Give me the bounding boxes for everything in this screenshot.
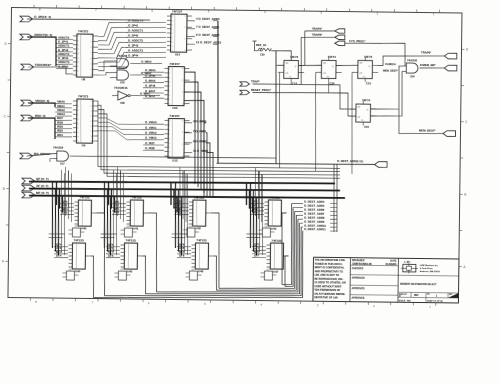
svg-text:U9: U9 xyxy=(82,143,86,147)
svg-text:O_VMA1: O_VMA1 xyxy=(145,125,157,129)
svg-text:74AS08: 74AS08 xyxy=(117,65,128,69)
svg-text:2: 2 xyxy=(169,77,170,79)
svg-text:O_VMA3: O_VMA3 xyxy=(145,136,157,140)
net labels O_ADDCT0-7 into U14 xyxy=(126,19,167,58)
svg-text:O_3P44: O_3P44 xyxy=(128,54,139,58)
IC U9 74F373 latch xyxy=(72,94,98,147)
input connector VMA xyxy=(21,99,49,107)
wire label stack bus B xyxy=(336,164,338,232)
svg-text:74F153: 74F153 xyxy=(131,195,142,199)
svg-text:1: 1 xyxy=(172,46,173,48)
svg-text:01/08/86: 01/08/86 xyxy=(385,262,396,266)
input connector ADDCT xyxy=(20,33,52,41)
svg-text:O_DEST_ADR11: O_DEST_ADR11 xyxy=(304,227,326,231)
svg-text:2: 2 xyxy=(78,45,79,47)
net label O_IMA7 xyxy=(139,91,160,95)
svg-text:O_3P44: O_3P44 xyxy=(58,64,69,68)
input connector IR xyxy=(21,114,46,121)
svg-text:1: 1 xyxy=(78,40,79,42)
svg-text:O_DEST_ADR(0:11): O_DEST_ADR(0:11) xyxy=(337,159,363,163)
output connector TRAP0* right xyxy=(421,51,457,59)
svg-text:U38: U38 xyxy=(120,102,125,105)
net labels VMA0-IR31 into U9 xyxy=(55,100,73,138)
AND gate U16a 74AS08 xyxy=(110,54,140,73)
IC U41 74F153 mux row1 col2 xyxy=(112,195,149,237)
wire C24 CK drop xyxy=(314,72,316,171)
wire C15 CK drop xyxy=(351,72,353,174)
svg-text:2: 2 xyxy=(169,104,170,106)
svg-text:1: 1 xyxy=(78,114,79,116)
wire U15 Q up to gate xyxy=(370,66,406,110)
wires U9 output fan to select bus xyxy=(97,101,341,179)
svg-text:LMI, AND IS NOT TO: LMI, AND IS NOT TO xyxy=(314,273,339,277)
svg-text:1: 1 xyxy=(78,132,79,134)
wire ADDCT bus drop xyxy=(27,37,57,66)
wire VMA bus drop xyxy=(28,103,55,107)
svg-text:Andover, MA 01810: Andover, MA 01810 xyxy=(420,270,441,273)
svg-text:1: 1 xyxy=(169,82,170,84)
svg-text:O_ADDCT0: O_ADDCT0 xyxy=(128,19,144,23)
title block signature rows xyxy=(350,259,398,300)
svg-text:74F153: 74F153 xyxy=(269,195,280,199)
svg-text:VMA(0: 3): VMA(0: 3) xyxy=(35,99,49,103)
flip-flop C14 74F74 xyxy=(278,55,304,86)
svg-text:2: 2 xyxy=(172,50,173,52)
svg-text:TEN PERMISSION OF: TEN PERMISSION OF xyxy=(314,288,341,292)
IC U8 74F373 latch xyxy=(72,29,98,81)
output connector MEM_DEST* xyxy=(419,128,456,136)
wires select drops into mux columns xyxy=(60,165,263,257)
wire O_DEST_ADR label bus vertical xyxy=(216,21,220,163)
wires U13 outputs to bus xyxy=(183,72,205,193)
svg-text:U45: U45 xyxy=(127,269,133,273)
svg-text:TAINED IN THIS DOCU-: TAINED IN THIS DOCU- xyxy=(315,261,343,265)
inverter U38 74AS004A xyxy=(112,86,139,105)
svg-text:74F157: 74F157 xyxy=(169,114,180,118)
svg-text:O_3P42: O_3P42 xyxy=(128,34,139,38)
svg-text:2: 2 xyxy=(78,62,79,64)
input connector QF bus xyxy=(22,177,49,185)
input connector RESET_PROC* xyxy=(240,88,357,116)
wire IR bus drop xyxy=(28,118,56,139)
svg-text:CHECKED: CHECKED xyxy=(352,268,364,270)
wires U9 lower outputs fan xyxy=(98,118,144,140)
svg-text:U47: U47 xyxy=(273,270,279,274)
svg-text:1: 1 xyxy=(78,66,79,68)
output connector O_DEST_ADR(0:11) xyxy=(337,159,387,167)
svg-text:74F157: 74F157 xyxy=(169,62,180,66)
svg-text:74AS08: 74AS08 xyxy=(53,146,64,150)
svg-text:2: 2 xyxy=(78,101,79,103)
input connector FSOURCE* xyxy=(21,63,52,71)
svg-text:BE REPRODUCED, DIS-: BE REPRODUCED, DIS- xyxy=(314,276,343,280)
svg-text:U16: U16 xyxy=(120,82,125,85)
title block size and scale cells xyxy=(398,292,459,303)
svg-text:O_3P45: O_3P45 xyxy=(145,73,156,77)
svg-text:MEMORY DESTINATION SELECT: MEMORY DESTINATION SELECT xyxy=(400,283,437,286)
svg-text:U40: U40 xyxy=(81,226,87,230)
svg-text:O_3P43: O_3P43 xyxy=(128,44,139,48)
AND gate U16b 74AS08 xyxy=(110,65,140,84)
svg-text:1: 1 xyxy=(169,125,170,127)
svg-text:LISP Machine Inc.: LISP Machine Inc. xyxy=(420,265,439,267)
wires nested jogs row1 to row2 xyxy=(48,231,262,240)
svg-text:1: 1 xyxy=(169,90,170,92)
input connector RQ_PROC* xyxy=(20,152,51,160)
svg-text:AF (0: 7): AF (0: 7) xyxy=(36,184,48,188)
svg-text:U44: U44 xyxy=(75,269,81,273)
net labels ADDCT0-ADDCT4 into U8 xyxy=(56,35,74,68)
svg-text:2: 2 xyxy=(78,128,79,130)
svg-text:1: 1 xyxy=(78,75,79,77)
AND gate U34 74AS00 xyxy=(383,58,418,78)
svg-text:O_3P46: O_3P46 xyxy=(145,84,156,88)
svg-text:U15: U15 xyxy=(364,125,369,129)
svg-text:U46: U46 xyxy=(198,269,204,273)
svg-text:TRAP0*: TRAP0* xyxy=(312,26,323,30)
svg-text:74AS00: 74AS00 xyxy=(407,59,418,63)
svg-text:9 O_IMM2: 9 O_IMM2 xyxy=(193,139,207,143)
wires mux outputs to collector bus xyxy=(90,201,304,300)
svg-text:O_IMA0: O_IMA0 xyxy=(141,59,152,63)
svg-text:74F373: 74F373 xyxy=(78,95,89,99)
svg-text:O_IR28: O_IR28 xyxy=(145,146,155,150)
svg-text:N/A: N/A xyxy=(407,299,411,302)
svg-text:FSOURCE*: FSOURCE* xyxy=(35,63,52,67)
svg-text:1: 1 xyxy=(172,20,173,22)
IC U46 74F153 mux row2 col3 xyxy=(177,238,214,280)
IC U45 74F153 mux row2 col2 xyxy=(106,238,143,280)
svg-text:APPROVED: APPROVED xyxy=(352,287,365,290)
IC U14 74F257 mux xyxy=(167,9,193,56)
svg-text:2: 2 xyxy=(172,24,173,26)
net label O_IMA5 xyxy=(140,71,162,75)
wire C14 Q to C24 D xyxy=(299,64,322,67)
input connector MF bus xyxy=(22,191,49,199)
svg-text:QF (0: 7): QF (0: 7) xyxy=(36,177,49,181)
output connector TRAP0 xyxy=(304,26,344,65)
svg-text:B: B xyxy=(3,187,5,191)
svg-text:C55: C55 xyxy=(260,54,265,57)
svg-text:2: 2 xyxy=(172,33,173,35)
svg-text:11 O_IMM3: 11 O_IMM3 xyxy=(193,149,208,153)
input connector O_3P xyxy=(20,15,51,23)
svg-text:2: 2 xyxy=(169,121,170,123)
output connector TRAP8 xyxy=(301,33,345,86)
svg-text:1: 1 xyxy=(78,58,79,60)
svg-text:O_3P41: O_3P41 xyxy=(128,24,139,28)
wire O_3P top run xyxy=(27,19,150,21)
svg-text:O_IMA5: O_IMA5 xyxy=(145,79,156,83)
svg-text:O_3P(16: 4): O_3P(16: 4) xyxy=(34,15,51,19)
svg-text:74AS004A: 74AS004A xyxy=(114,86,128,90)
svg-text:1: 1 xyxy=(169,152,170,154)
svg-text:2: 2 xyxy=(78,137,79,139)
wire C24 Q to C15 D xyxy=(336,64,358,66)
svg-text:NO.: NO. xyxy=(427,294,431,296)
svg-text:2: 2 xyxy=(172,16,173,18)
svg-text:2: 2 xyxy=(169,147,170,149)
bus MF thick xyxy=(29,194,345,199)
title block frame xyxy=(313,257,459,303)
svg-text:AN AUTHORIZED REPRE-: AN AUTHORIZED REPRE- xyxy=(314,291,346,295)
wires U8 outputs fan xyxy=(98,22,129,67)
svg-text:2: 2 xyxy=(78,71,79,73)
svg-text:MF (0: 7): MF (0: 7) xyxy=(36,191,49,195)
svg-text:IR(0: 4): IR(0: 4) xyxy=(35,114,46,118)
svg-text:CLOSED TO OTHERS, OR: CLOSED TO OTHERS, OR xyxy=(314,280,346,284)
svg-text:74F153: 74F153 xyxy=(196,238,207,242)
svg-text:REF: REF xyxy=(414,295,419,297)
svg-text:7 O_IMM1: 7 O_IMM1 xyxy=(193,129,207,133)
svg-text:74F153: 74F153 xyxy=(194,196,205,200)
svg-text:APPROVED: APPROVED xyxy=(352,277,365,280)
output connector MEM_NR* xyxy=(419,63,456,71)
svg-text:1: 1 xyxy=(169,73,170,75)
svg-text:RESET_PROC*: RESET_PROC* xyxy=(251,88,272,92)
input connector AF bus xyxy=(22,184,48,192)
net labels O_DEST_ADR4-11 stack xyxy=(291,200,337,232)
flip-flop C15 74F74 xyxy=(352,55,378,86)
border zone tick marks and labels xyxy=(1,4,469,308)
svg-text:8 MEM_NR*: 8 MEM_NR* xyxy=(420,63,437,67)
resistor R35 REF_1K pullup xyxy=(252,41,291,60)
wire FSOURCE* to U8 xyxy=(28,67,73,75)
svg-text:2: 2 xyxy=(169,69,170,71)
svg-text:74F257: 74F257 xyxy=(172,9,183,13)
flip-flop U15 74F74 xyxy=(350,98,376,129)
svg-text:O_3P47: O_3P47 xyxy=(145,94,156,98)
svg-text:6 Tech Drive: 6 Tech Drive xyxy=(420,268,434,270)
wire C15 Q to TRAP0* xyxy=(378,55,444,66)
svg-text:1: 1 xyxy=(78,123,79,125)
svg-text:SENTATIVE OF LMI.: SENTATIVE OF LMI. xyxy=(314,295,338,299)
AND gate U17 74AS08 xyxy=(27,145,69,165)
net labels O_IMM0-3 xyxy=(184,119,214,196)
title text MEMORY DESTINATION SELECT xyxy=(398,283,459,293)
svg-text:2: 2 xyxy=(169,156,170,158)
wire C14 CLR tap xyxy=(290,82,292,85)
svg-text:1: 1 xyxy=(169,134,170,136)
net label O_IMA0 xyxy=(140,59,162,63)
svg-text:USED WITHOUT WRIT-: USED WITHOUT WRIT- xyxy=(314,284,342,288)
bus AF thick xyxy=(29,187,340,193)
svg-text:1: 1 xyxy=(169,99,170,101)
IC U13 74F157 mux xyxy=(164,62,190,110)
svg-text:2: 2 xyxy=(78,36,79,38)
bus QF thick xyxy=(29,180,335,186)
svg-text:CYS_PROC*: CYS_PROC* xyxy=(349,39,366,43)
svg-text:1: 1 xyxy=(78,49,79,51)
wires bus drops into mux columns xyxy=(52,180,258,257)
title block disclaimer text xyxy=(314,258,346,300)
wire label stack bus A xyxy=(333,164,335,232)
svg-text:U8: U8 xyxy=(82,77,86,81)
connector CYS_PROC* xyxy=(335,39,406,66)
svg-text:MEM_DEST*: MEM_DEST* xyxy=(419,128,437,132)
wire MEM_DEST run xyxy=(399,109,444,134)
wire O_DEST vertical x276 xyxy=(275,51,278,163)
svg-text:CLMEGA: CLMEGA xyxy=(385,63,396,66)
svg-text:MEM_DEST*: MEM_DEST* xyxy=(383,70,398,73)
svg-text:U41: U41 xyxy=(133,227,139,231)
IC U40 74F153 mux row1 col1 xyxy=(60,195,97,237)
svg-text:O_ADDCT3: O_ADDCT3 xyxy=(128,49,144,53)
svg-text:AND PROPRIETARY TO: AND PROPRIETARY TO xyxy=(314,269,343,273)
svg-text:U12: U12 xyxy=(172,158,178,162)
svg-text:U13: U13 xyxy=(172,106,178,110)
wire U17 output run xyxy=(70,156,276,159)
svg-text:2: 2 xyxy=(172,41,173,43)
wire C14 CK drop xyxy=(278,72,280,168)
svg-text:74F373: 74F373 xyxy=(78,30,89,34)
flip-flop C24 74F74 xyxy=(315,55,341,86)
LMI logo box xyxy=(398,260,459,276)
svg-text:L M I: L M I xyxy=(404,260,410,264)
svg-text:2: 2 xyxy=(169,86,170,88)
svg-text:74F153: 74F153 xyxy=(126,239,137,243)
svg-text:SHEET 31 OF 46: SHEET 31 OF 46 xyxy=(427,299,443,302)
svg-text:U14: U14 xyxy=(175,52,181,56)
svg-text:IR31: IR31 xyxy=(57,133,63,137)
svg-text:C15: C15 xyxy=(366,81,371,85)
svg-text:REF_1K: REF_1K xyxy=(256,43,266,47)
svg-text:2: 2 xyxy=(169,138,170,140)
svg-text:74F153: 74F153 xyxy=(79,196,90,200)
svg-text:O_IR27: O_IR27 xyxy=(145,141,155,145)
wire O_DEST_ADR bus horizontal xyxy=(217,163,375,166)
svg-text:1: 1 xyxy=(78,141,79,143)
svg-text:O_VMA0: O_VMA0 xyxy=(145,120,157,124)
svg-text:U34: U34 xyxy=(410,75,415,78)
net labels into U13 xyxy=(143,68,165,98)
wires U8 to U16 gate inputs xyxy=(98,61,110,75)
svg-text:MENT IS CONFIDENTIAL: MENT IS CONFIDENTIAL xyxy=(315,265,345,269)
svg-text:SCALE: SCALE xyxy=(399,299,406,302)
svg-text:TRAP*: TRAP* xyxy=(251,80,261,84)
svg-text:2: 2 xyxy=(78,110,79,112)
svg-text:2: 2 xyxy=(169,95,170,97)
svg-text:2: 2 xyxy=(78,53,79,55)
svg-text:74F153: 74F153 xyxy=(74,238,85,242)
svg-text:C14: C14 xyxy=(292,81,297,85)
IC U42 74F153 mux row1 col3 xyxy=(174,195,211,237)
svg-text:B: B xyxy=(464,192,466,196)
IC U43 74F153 mux row1 col4 xyxy=(250,195,287,237)
svg-text:TRAP0*: TRAP0* xyxy=(421,51,432,55)
svg-text:74F153: 74F153 xyxy=(271,238,282,242)
svg-text:O_ADDCT2: O_ADDCT2 xyxy=(128,39,144,43)
net labels into U12 xyxy=(143,120,165,150)
svg-text:2: 2 xyxy=(78,119,79,121)
wire C14 D input xyxy=(276,64,284,66)
sheet border frame xyxy=(8,8,462,303)
IC U12 74F157 mux xyxy=(164,114,190,163)
svg-text:DMFRANKLIN: DMFRANKLIN xyxy=(352,262,371,266)
svg-text:U42: U42 xyxy=(196,226,202,230)
svg-text:2: 2 xyxy=(169,129,170,131)
IC U44 74F153 mux row2 col1 xyxy=(54,238,91,280)
svg-text:O_IMA0: O_IMA0 xyxy=(145,68,156,72)
svg-text:TRAP8*: TRAP8* xyxy=(312,33,323,37)
IC U47 74F153 mux row2 col4 xyxy=(252,238,289,280)
svg-text:U17: U17 xyxy=(60,163,65,166)
svg-text:THE INFORMATION CON-: THE INFORMATION CON- xyxy=(315,258,346,262)
svg-text:O_ADDCT1: O_ADDCT1 xyxy=(128,29,144,33)
input connector TRAP* xyxy=(240,79,357,109)
wire U15 Qb up to gate xyxy=(371,71,407,116)
svg-text:O_VMA2: O_VMA2 xyxy=(145,131,157,135)
svg-text:1: 1 xyxy=(172,37,173,39)
wire C24 CLR tap xyxy=(328,82,330,93)
svg-text:APPROVED: APPROVED xyxy=(351,297,364,300)
svg-text:1: 1 xyxy=(78,105,79,107)
svg-text:1: 1 xyxy=(169,143,170,145)
svg-text:U43: U43 xyxy=(271,226,277,230)
svg-text:1: 1 xyxy=(172,29,173,31)
svg-text:O_IMA7: O_IMA7 xyxy=(145,89,156,93)
net labels O_DEST_ADR0-3 with pin numbers xyxy=(187,17,222,45)
